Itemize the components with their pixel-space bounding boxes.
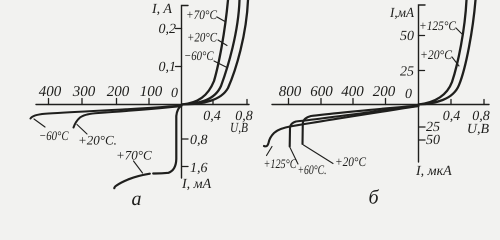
svg-text:300: 300	[72, 84, 96, 100]
plot a: reverse curve +70C continued after dash gap	[114, 174, 150, 189]
svg-text:−60°C: −60°C	[39, 128, 69, 143]
svg-text:I, мА: I, мА	[181, 177, 212, 192]
plot b: tick 600	[320, 99, 322, 105]
svg-text:+60°C.: +60°C.	[298, 162, 327, 177]
plot a: forward curve +70C	[182, 0, 228, 105]
svg-text:−60°C: −60°C	[184, 48, 214, 63]
svg-text:50: 50	[400, 29, 414, 44]
plot b: vertical axis up	[419, 5, 426, 105]
plot a: leader +70C top	[217, 17, 225, 22]
plot b: leader +60C bottom	[290, 148, 298, 165]
svg-text:600: 600	[310, 84, 333, 100]
svg-text:I,мА: I,мА	[389, 6, 414, 21]
svg-text:0,8: 0,8	[190, 133, 208, 148]
svg-text:100: 100	[140, 84, 163, 100]
plot b: tick 50 up	[419, 35, 425, 37]
svg-text:I, мкА: I, мкА	[415, 164, 452, 179]
plot b: horizontal axis right	[419, 104, 490, 106]
plot b: tick 200	[385, 99, 387, 105]
plot b: tick 0,4	[450, 100, 452, 105]
svg-text:U,B: U,B	[230, 121, 248, 136]
plot b: leader +125C top	[456, 28, 462, 34]
svg-text:0,2: 0,2	[159, 22, 177, 37]
plot a: leader +20C bottom	[77, 125, 87, 135]
svg-text:1,6: 1,6	[190, 161, 208, 176]
plot a: vertical axis down	[181, 105, 183, 178]
svg-text:0: 0	[171, 86, 178, 101]
plot b: horizontal axis left (reverse)	[272, 104, 419, 106]
svg-text:25: 25	[400, 65, 414, 80]
plot b: tick 0,8	[483, 100, 485, 105]
plot b: reverse curve +20C	[303, 106, 419, 145]
svg-text:0,1: 0,1	[159, 60, 177, 75]
plot a: forward curve +20C	[182, 0, 240, 105]
plot b: forward curve +125C	[419, 0, 467, 105]
svg-text:200: 200	[373, 84, 396, 100]
svg-text:+125°C: +125°C	[264, 156, 297, 171]
svg-text:200: 200	[107, 84, 130, 100]
svg-text:50: 50	[426, 133, 440, 148]
plot b: tick 25 down	[419, 126, 425, 128]
svg-text:400: 400	[39, 84, 62, 100]
svg-text:U,B: U,B	[467, 122, 490, 137]
svg-text:б: б	[369, 187, 380, 208]
plot a: tick 1,6 down	[182, 166, 188, 168]
svg-text:+125°C: +125°C	[419, 18, 456, 33]
plot a: vertical axis up	[182, 6, 189, 106]
plot b: reverse curve +60C	[290, 106, 419, 147]
plot b: tick 25 up	[419, 70, 425, 72]
plot a: horizontal axis left (reverse)	[36, 104, 182, 106]
svg-text:0,4: 0,4	[203, 109, 221, 124]
plot b: tick 400	[352, 99, 354, 105]
plot a: tick 400	[48, 99, 50, 105]
svg-text:800: 800	[279, 84, 302, 100]
plot a: tick 300	[81, 99, 83, 105]
plot b: leader +20C bottom	[304, 145, 334, 164]
plot b: tick 800	[288, 99, 290, 105]
plot a: reverse curve +20C	[74, 106, 182, 128]
svg-text:+70°C: +70°C	[186, 7, 217, 22]
plot a: leader +70C bottom	[134, 161, 143, 173]
plot a: tick 0,2	[176, 28, 182, 30]
plot a: tick 0,4	[212, 100, 214, 105]
svg-text:0,4: 0,4	[443, 109, 461, 124]
plot a: tick 0,8 down	[182, 138, 188, 140]
svg-text:+20°C: +20°C	[187, 30, 217, 45]
plot a: tick 200	[116, 99, 118, 105]
plot a: horizontal axis right	[182, 104, 250, 106]
plot a: leader +20C top	[218, 40, 227, 46]
svg-text:0: 0	[405, 87, 412, 102]
plot a: reverse curve -60C	[31, 106, 182, 119]
plot b: reverse curve +125C	[264, 106, 419, 146]
plot b: tick 50 down	[419, 139, 425, 141]
svg-text:+20°C: +20°C	[335, 154, 366, 169]
svg-text:а: а	[132, 188, 142, 207]
svg-text:+20°C: +20°C	[420, 47, 452, 62]
plot b: vertical axis down	[418, 105, 420, 162]
svg-text:+70°C: +70°C	[116, 148, 152, 163]
svg-text:I, A: I, A	[151, 2, 172, 17]
plot a: reverse curve +70C (vertical drop, plateau, tail)	[153, 106, 181, 174]
plot a: forward curve -60C	[182, 0, 248, 105]
plot a: tick 0,1	[176, 66, 182, 68]
plot a: leader -60C top	[214, 61, 226, 67]
plot a: tick 100	[148, 99, 150, 105]
plot a: leader -60C bottom	[34, 119, 45, 127]
svg-text:+20°C.: +20°C.	[78, 133, 117, 148]
svg-text:400: 400	[341, 84, 364, 100]
plot a: tick 0,8	[246, 100, 248, 105]
plot b: leader +125C bottom	[267, 147, 273, 156]
plot b: leader +20C top	[452, 57, 459, 66]
plot b: forward curve +20C	[419, 0, 476, 105]
